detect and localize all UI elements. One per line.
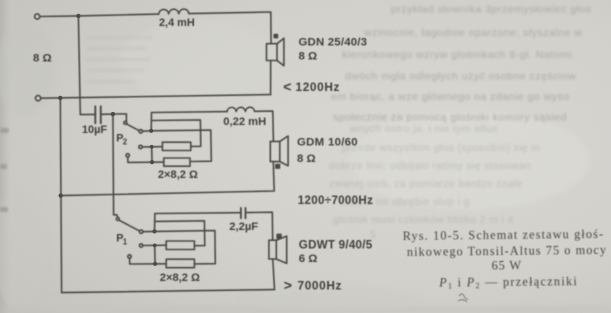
svg-text:kierunkowego wzryw głośnikach: kierunkowego wzryw głośnikach 8-gł. Nato… (342, 49, 572, 61)
inductor L1 2.4 mH (159, 9, 189, 14)
svg-text:8 Ω: 8 Ω (297, 153, 316, 165)
svg-text:GDM 10/60: GDM 10/60 (297, 137, 358, 149)
svg-text:2,4 mH: 2,4 mH (159, 17, 195, 29)
wire contact3 to R2 (128, 157, 164, 162)
left edge ink specks (0, 128, 9, 212)
speaker GDN 25/40/3 (267, 44, 278, 61)
svg-text:65 W: 65 W (491, 258, 522, 272)
switch P1 arm (119, 220, 139, 231)
svg-text:1: 1 (123, 237, 128, 246)
vertical node up to cap line (154, 214, 156, 232)
cap line to C2 (155, 212, 240, 215)
switch P1 pivot (116, 217, 119, 220)
svg-text:>: > (284, 277, 292, 293)
switch P2 contact 1 (139, 130, 142, 133)
capacitor C2 2.2uF plates (240, 208, 242, 218)
svg-text:7000Hz: 7000Hz (298, 279, 343, 293)
wire contact1 to node (143, 230, 155, 232)
bleed-through text block top right (331, 4, 592, 124)
left rail down and bottom rail (60, 98, 274, 293)
switch P1 contact 1 (140, 230, 143, 233)
polarity mark GDM (276, 165, 280, 169)
switch P2 contact 3 (126, 154, 129, 157)
wire C1 to node B (102, 113, 113, 115)
node P2 contact2 junction (150, 145, 154, 149)
R3 return loop (155, 221, 205, 246)
resistor R3 8.2 ohm (166, 241, 194, 250)
svg-text:2,2µF: 2,2µF (229, 221, 258, 233)
svg-text:2×8,2 Ω: 2×8,2 Ω (160, 272, 200, 284)
vertical contact2-contact3 link (154, 245, 156, 263)
svg-text:dobrze linii; odbijało ratimy: dobrze linii; odbijało ratimy się stosow… (329, 161, 531, 172)
svg-text:Rys. 10-5. Schemat zestawu gło: Rys. 10-5. Schemat zestawu głoś- (403, 227, 605, 243)
resistor R1 8.2 ohm (162, 142, 190, 150)
vertical node B down to P1 section (112, 114, 115, 215)
wire contact3 to R4 (130, 258, 167, 264)
polarity mark GDN (274, 35, 277, 38)
wire input+ to node A (40, 15, 79, 18)
node A junction (76, 14, 80, 18)
switch P2 pivot (124, 121, 127, 124)
terminal input + (35, 14, 40, 19)
bleed-through text block middle right (329, 124, 540, 226)
faint bleed smudges near left (86, 36, 152, 83)
wire contact2 to R3 (143, 244, 166, 246)
switch P1 contact 3 (128, 255, 131, 258)
svg-text:8 Ω: 8 Ω (299, 50, 318, 62)
switch P2 contact 2 (139, 145, 142, 148)
svg-text:zwanej sieb, za pomiarze bardz: zwanej sieb, za pomiarze bardzo znale (329, 179, 523, 190)
resistor R4 8.2 ohm (166, 259, 194, 268)
svg-text:1200÷7000Hz: 1200÷7000Hz (298, 195, 373, 207)
svg-text:6 Ω: 6 Ω (299, 253, 318, 265)
svg-text:głośnik musi członków blisko 2: głośnik musi członków blisko 2 m i 4 (333, 215, 514, 226)
svg-text:dwóch mgła odległych użyć osob: dwóch mgła odległych użyć osobne częścio… (345, 71, 576, 83)
mid rail and GDM bottom wire (61, 162, 275, 196)
svg-text:P1 i P2 — przełączniki: P1 i P2 — przełączniki (438, 274, 578, 290)
switch P1 contact 2 (139, 244, 142, 247)
speaker GDM 10/60 (270, 141, 280, 161)
node P2 contact1 junction (149, 129, 153, 133)
vertical feed A down to capacitor C1 (78, 16, 94, 115)
terminal input - (36, 96, 41, 101)
svg-text:wzmocnie, łagodnie oparzone, s: wzmocnie, łagodnie oparzone, słyszalne w (363, 27, 582, 39)
node P1 contact3 junction (153, 262, 157, 266)
svg-text:GDN 25/40/3: GDN 25/40/3 (299, 36, 368, 48)
switch P1 feed (114, 215, 118, 218)
node B junction (111, 112, 115, 116)
node mid rail junction (59, 193, 63, 197)
node P2 contact3 junction (150, 160, 154, 164)
svg-text:0,22 mH: 0,22 mH (223, 116, 266, 128)
speaker GDWT 9/40/5 (269, 240, 276, 259)
polarity mark GDWT (277, 234, 281, 238)
node P1 contact1 junction (152, 229, 156, 233)
vertical contact2-contact3 link (151, 147, 153, 162)
svg-text:<: < (283, 79, 291, 95)
svg-text:8 Ω: 8 Ω (33, 53, 52, 65)
switch P2 arm (126, 124, 139, 131)
R4 return loop (155, 231, 216, 264)
switch P2 feed (113, 114, 127, 121)
capacitor C1 10uF plates (94, 106, 96, 123)
wire input- rail (41, 95, 271, 99)
svg-text:przykład słownika 3przemysłowi: przykład słownika 3przemysłowiec głos (391, 4, 592, 16)
mid top line to inductor L2 (152, 111, 228, 114)
wire L1 to speaker GDN top (189, 12, 271, 44)
R2 return loop (151, 130, 211, 161)
R1 return loop (151, 120, 200, 146)
vertical node up to mid top line (150, 113, 152, 131)
inductor L2 0.22 mH (227, 107, 255, 111)
resistor R2 8.2 ohm (164, 158, 190, 166)
svg-text:em biorąc, a wze głównego na z: em biorąc, a wze głównego na zdanie go w… (331, 91, 570, 103)
node P1 contact2 junction (153, 244, 157, 248)
node input- / left rail junction (58, 96, 62, 100)
svg-text:wnych ostro ja, i nie tym altu: wnych ostro ja, i nie tym altus (349, 124, 498, 135)
svg-text:2: 2 (123, 138, 128, 147)
junction dots (58, 14, 157, 266)
wire GDWT bottom to rail (273, 259, 275, 289)
svg-text:2×8,2 Ω: 2×8,2 Ω (158, 169, 198, 181)
wire contact1 to node (142, 130, 151, 132)
wire contact2 to R1 (142, 146, 162, 148)
wire node A to inductor L1 (78, 14, 158, 16)
svg-text:1200Hz: 1200Hz (296, 80, 341, 94)
pencil squiggle (458, 294, 468, 302)
wire C2 to GDWT top (246, 212, 272, 240)
svg-text:społecznie za pomocą głośniki: społecznie za pomocą głośniki komory sąs… (333, 112, 567, 124)
svg-text:przede wszystkim głos (sposobi: przede wszystkim głos (sposobie) się m (342, 143, 540, 154)
svg-text:10µF: 10µF (82, 124, 107, 136)
wire L2 to GDM top (255, 111, 274, 141)
wire GDN bottom down (270, 61, 272, 95)
svg-text:GDWT 9/40/5: GDWT 9/40/5 (299, 239, 373, 252)
svg-text:nikowego Tonsil-Altus 75 o moc: nikowego Tonsil-Altus 75 o mocy (407, 243, 607, 259)
